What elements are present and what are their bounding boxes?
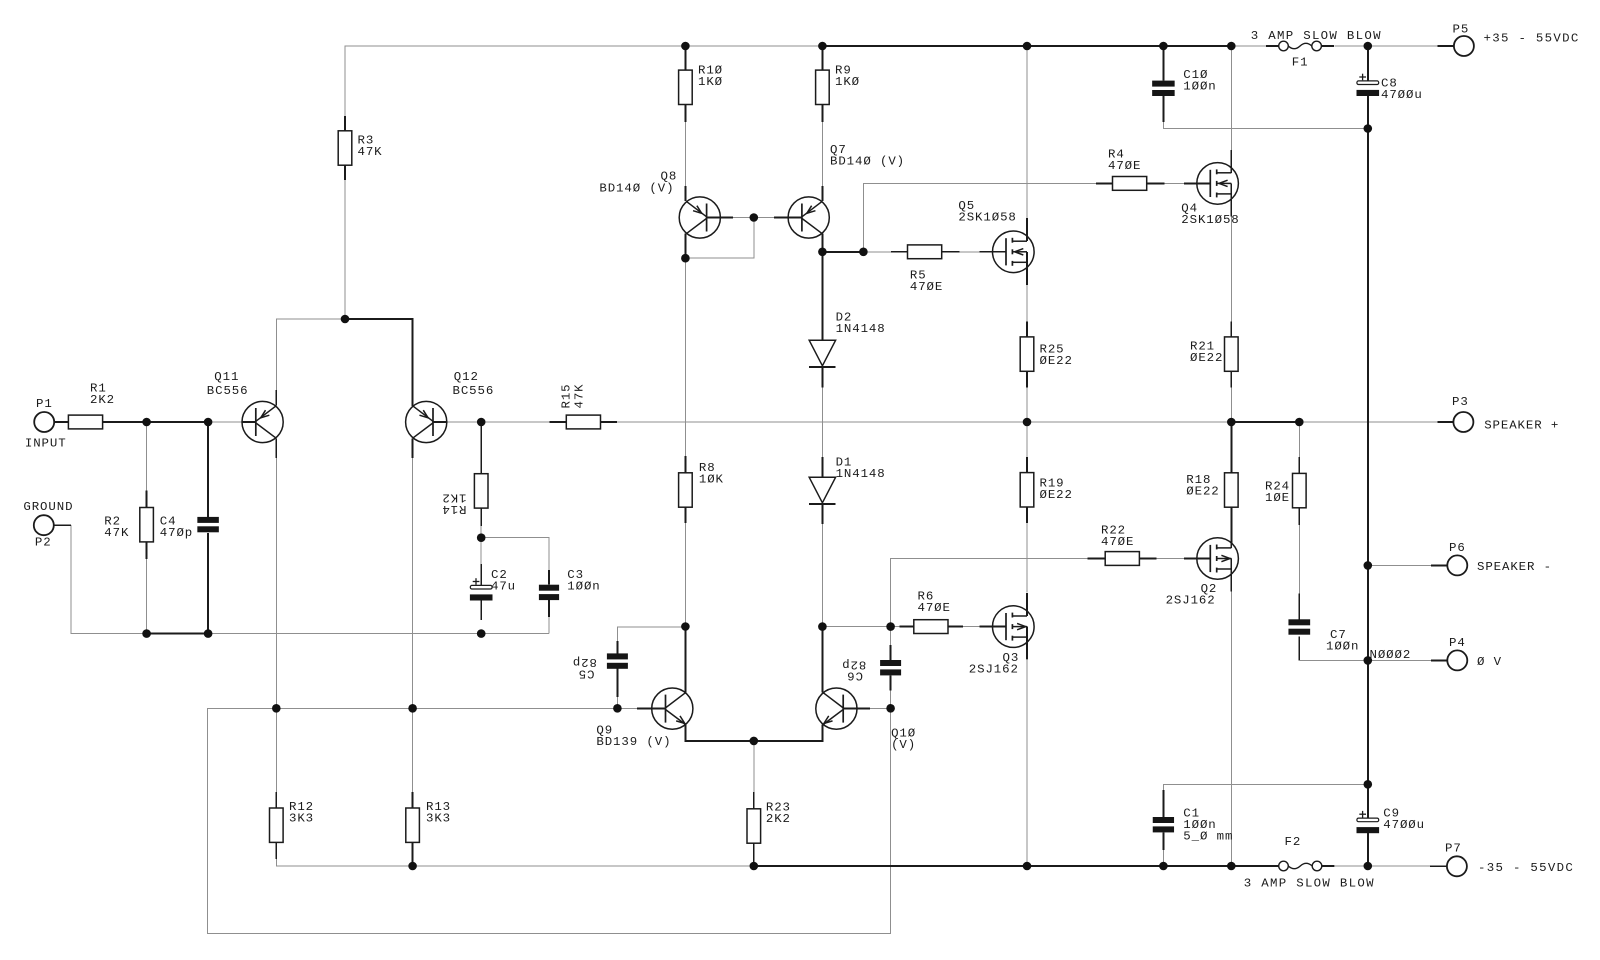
- svg-text:3 AMP SLOW BLOW: 3 AMP SLOW BLOW: [1244, 876, 1375, 890]
- svg-text:Q12: Q12: [454, 370, 479, 384]
- wire: main V bus (thick): [1367, 129, 1369, 785]
- junction: [477, 629, 486, 638]
- junction: [142, 629, 151, 638]
- junction: [681, 42, 690, 51]
- svg-text:47u: 47u: [491, 580, 516, 594]
- svg-text:47ØØu: 47ØØu: [1383, 818, 1425, 832]
- junction: [613, 704, 622, 713]
- wire: Q4 drain to V+ rail: [1230, 46, 1232, 150]
- fuse F1 (3 AMP SLOW BLOW): [1251, 29, 1382, 70]
- svg-text:C6: C6: [846, 669, 863, 683]
- svg-text:P4: P4: [1449, 636, 1466, 650]
- wire: P2 ground run: [71, 525, 147, 633]
- wire: C1 elbow to bus: [1163, 784, 1368, 790]
- junction: [818, 622, 827, 631]
- wire: feedback node to C3: [481, 538, 549, 570]
- capacitor C2 47u: [470, 564, 516, 620]
- svg-text:P2: P2: [35, 536, 52, 550]
- resistor R9 1K0: [816, 46, 860, 122]
- svg-text:P1: P1: [36, 397, 53, 411]
- junction: [818, 42, 827, 51]
- resistor R13 3K3: [406, 792, 451, 866]
- wire: C4 column (thick): [207, 422, 209, 517]
- wire: shared base node to Q7 base: [754, 217, 774, 219]
- wire: Q10 base to C6 node: [870, 707, 891, 709]
- wire: tail node to Q11 emitter column: [276, 319, 345, 390]
- wire: C5 bottom to base node: [616, 697, 618, 709]
- junction: [341, 315, 350, 324]
- wire: Q9/Q10 emitter bridge (thick): [685, 725, 822, 741]
- wire: R21 to output net: [1230, 388, 1232, 422]
- svg-text:GROUND: GROUND: [23, 500, 73, 514]
- wire: Q9 collector (thick): [684, 627, 686, 694]
- resistor R19 0E22: [1020, 457, 1073, 523]
- junction: [886, 704, 895, 713]
- transistor Q9 BD139: [596, 688, 693, 749]
- capacitor C8 4700u: [1357, 74, 1423, 102]
- junction: [1159, 862, 1168, 871]
- junction: [1364, 561, 1373, 570]
- junction: [886, 622, 895, 631]
- wire: C8 top lead (thick): [1367, 46, 1369, 81]
- junction: [408, 862, 417, 871]
- capacitor C6 82p (rotated label): [841, 645, 901, 691]
- svg-text:+35 - 55VDC: +35 - 55VDC: [1484, 32, 1580, 46]
- wire: Q3 source to R19: [1026, 507, 1028, 523]
- wire: R8 bottom to Q9 collector node: [684, 507, 686, 523]
- resistor R24 10E: [1265, 457, 1306, 525]
- svg-text:SPEAKER +: SPEAKER +: [1484, 419, 1559, 433]
- resistor R4 470E: [1096, 148, 1165, 191]
- junction: [681, 254, 690, 263]
- wire: D1 cathode to lower gate node: [821, 524, 823, 627]
- resistor R18 0E22: [1186, 473, 1238, 507]
- svg-text:5_Ø mm: 5_Ø mm: [1183, 830, 1233, 844]
- wire: V+ rail left (R3 top to Q8/R10 column): [345, 46, 822, 180]
- wire: bootstrap column to R8: [684, 258, 686, 456]
- junction: [408, 704, 417, 713]
- resistor R10 1K0: [679, 46, 723, 122]
- junction: [818, 248, 827, 257]
- wire: tail node to Q12 emitter (thick): [345, 319, 413, 406]
- svg-text:P5: P5: [1453, 23, 1470, 37]
- svg-text:1ØØn: 1ØØn: [567, 580, 600, 594]
- svg-text:1KØ: 1KØ: [698, 75, 723, 89]
- junction: [1364, 780, 1373, 789]
- wire: R22 to Q2 gate: [1156, 558, 1184, 560]
- capacitor C1 100n: [1153, 790, 1234, 850]
- svg-text:47ØØu: 47ØØu: [1381, 88, 1423, 102]
- junction: [272, 704, 281, 713]
- junction: [750, 737, 759, 746]
- wire: Q2 source to V- rail: [1230, 591, 1232, 866]
- svg-text:47Øp: 47Øp: [160, 526, 193, 540]
- svg-text:1N4148: 1N4148: [836, 322, 886, 336]
- svg-text:3K3: 3K3: [289, 812, 314, 826]
- svg-text:ØE22: ØE22: [1040, 488, 1073, 502]
- junction: [1295, 418, 1304, 427]
- svg-text:47ØE: 47ØE: [918, 601, 951, 615]
- wire: feedback node to C2: [480, 538, 482, 564]
- svg-text:ØE22: ØE22: [1186, 485, 1219, 499]
- junction: [859, 248, 868, 257]
- svg-text:F2: F2: [1285, 835, 1302, 849]
- wire: R2 column: [146, 422, 148, 490]
- wire: V+ rail to fuse F1: [1231, 45, 1266, 47]
- transistor Q10 BD139: [816, 688, 916, 752]
- svg-text:2SK1Ø58: 2SK1Ø58: [1181, 213, 1239, 227]
- wire: R9 column to Q7 emitter: [821, 122, 823, 186]
- connector P1 (INPUT): [25, 397, 69, 451]
- wire: R13 column: [412, 708, 414, 792]
- wire: V- rail thick: [754, 865, 1266, 867]
- capacitor C10 100n: [1152, 46, 1216, 122]
- svg-text:BC556: BC556: [207, 384, 249, 398]
- junction: [1227, 862, 1236, 871]
- svg-text:P3: P3: [1452, 395, 1469, 409]
- wire: R5 to Q5 gate: [960, 251, 980, 253]
- wire: 0V branch: [1368, 659, 1431, 661]
- junction: [1023, 42, 1032, 51]
- svg-text:Ø V: Ø V: [1477, 655, 1502, 669]
- wire: Q7 collector node (thick): [822, 234, 863, 252]
- wire: input node to Q11 base: [208, 421, 242, 423]
- wire: C9 bus to P7: [1368, 865, 1430, 867]
- junction: [1227, 42, 1236, 51]
- svg-text:2SJ162: 2SJ162: [1166, 594, 1216, 608]
- svg-text:2SK1Ø58: 2SK1Ø58: [958, 211, 1016, 225]
- wire: R25 to output net: [1026, 388, 1028, 422]
- svg-text:3 AMP SLOW BLOW: 3 AMP SLOW BLOW: [1251, 29, 1382, 43]
- svg-text:ØE22: ØE22: [1190, 351, 1223, 365]
- connector P5 (+35 - 55VDC): [1437, 23, 1579, 57]
- wire: R18 to Q2 drain (thick): [1230, 507, 1232, 548]
- resistor R23 2K2: [747, 792, 791, 866]
- wire: driver base net middle: [276, 707, 637, 709]
- fuse F2 (3 AMP SLOW BLOW): [1244, 835, 1375, 890]
- wire: ground rail thick segment: [147, 633, 209, 635]
- wire: C9 leads (thick): [1367, 784, 1369, 818]
- junction: [1159, 42, 1168, 51]
- svg-text:P7: P7: [1445, 842, 1462, 856]
- wire: output net to P3: [1299, 421, 1437, 423]
- resistor R14 1K2 (rotated label): [441, 474, 488, 516]
- svg-text:BD14Ø (V): BD14Ø (V): [830, 155, 905, 169]
- resistor R22 470E: [1088, 524, 1157, 566]
- transistor Q11 BC556: [207, 370, 283, 458]
- wire: R12 column: [275, 708, 277, 792]
- wire: R10 column to Q8 emitter: [684, 122, 686, 186]
- svg-text:BD14Ø (V): BD14Ø (V): [599, 182, 674, 196]
- svg-text:1ØØn: 1ØØn: [1326, 640, 1359, 654]
- wire: D2 anode feed (thick): [821, 252, 823, 340]
- junction: [477, 418, 486, 427]
- junction: [477, 533, 486, 542]
- svg-text:2K2: 2K2: [90, 393, 115, 407]
- diode D1 1N4148: [809, 456, 885, 524]
- wire: Q11 collector column: [275, 458, 277, 708]
- svg-text:47ØE: 47ØE: [1108, 159, 1141, 173]
- junction: [1364, 656, 1373, 665]
- wire: R24 column: [1298, 422, 1300, 457]
- svg-text:SPEAKER -: SPEAKER -: [1477, 560, 1552, 574]
- transistor Q7 BD140: [774, 143, 905, 238]
- wire: C6 column stubs: [890, 627, 892, 645]
- wire: C5 top elbow: [617, 627, 685, 641]
- wire: lower gate node to C6/R6: [822, 626, 899, 628]
- wire: output to R18 (thick): [1230, 422, 1232, 473]
- svg-text:BC556: BC556: [453, 384, 495, 398]
- svg-text:1N4148: 1N4148: [836, 467, 886, 481]
- wire: Q5 drain to V+ rail: [1026, 46, 1028, 218]
- svg-text:ØE22: ØE22: [1040, 354, 1073, 368]
- junction: [204, 629, 213, 638]
- junction: [1023, 862, 1032, 871]
- svg-text:BD139 (V): BD139 (V): [596, 735, 671, 749]
- svg-text:P6: P6: [1449, 541, 1466, 555]
- wire: emitter bridge to R23: [753, 741, 755, 792]
- wire: R14 bottom to feedback node: [480, 508, 482, 526]
- connector P7 (-35 - 55VDC): [1430, 842, 1574, 877]
- svg-text:2K2: 2K2: [766, 812, 791, 826]
- wire: output net R15 to R25/R21 columns: [617, 421, 1231, 423]
- transistor Q8 BD140: [599, 170, 733, 239]
- connector P4 (0 V): [1431, 636, 1502, 670]
- wire: Q5 source to R25: [1026, 285, 1028, 322]
- resistor R5 470E: [891, 245, 960, 294]
- junction: [142, 418, 151, 427]
- wire: Q8 collector-base tie: [685, 218, 753, 259]
- wire: R14 top lead (thick): [480, 422, 482, 474]
- svg-text:1KØ: 1KØ: [835, 75, 860, 89]
- wire: R4 to Q4 gate: [1165, 182, 1184, 184]
- wire: ground rail to C2/C3: [208, 633, 549, 635]
- capacitor C9 4700u: [1357, 807, 1425, 834]
- junction: [1023, 418, 1032, 427]
- svg-text:INPUT: INPUT: [25, 437, 67, 451]
- junction: [204, 418, 213, 427]
- wire: driver base net left: [208, 708, 891, 933]
- mosfet Q2 2SJ162: [1166, 525, 1239, 608]
- resistor R1 2K2: [54, 382, 116, 429]
- mosfet Q4 2SK1058: [1181, 150, 1239, 227]
- wire: V+ rail thick middle: [822, 45, 1231, 47]
- svg-text:47ØE: 47ØE: [910, 280, 943, 294]
- wire: R3 bottom to tail node: [344, 180, 346, 319]
- wire: V- rail left (gray): [276, 859, 754, 866]
- svg-text:R14: R14: [441, 502, 466, 516]
- resistor R15 47K (rotated label): [550, 383, 618, 428]
- svg-text:47K: 47K: [104, 526, 129, 540]
- connector P6 (SPEAKER -): [1431, 541, 1552, 575]
- svg-text:F1: F1: [1292, 56, 1309, 70]
- resistor R21 0E22: [1190, 321, 1238, 387]
- wire: D2-D1 link: [821, 387, 823, 457]
- wire: output net thick segment to R24: [1231, 421, 1299, 423]
- svg-text:1ØE: 1ØE: [1265, 491, 1290, 505]
- diode D2 1N4148: [809, 311, 885, 388]
- resistor R8 10K: [679, 456, 724, 523]
- wire: Q8 collector stub: [684, 234, 686, 259]
- svg-text:NØØØ2: NØØØ2: [1370, 648, 1412, 662]
- wire: C1 bottom to V- rail: [1162, 850, 1164, 866]
- svg-text:C5: C5: [578, 667, 595, 681]
- svg-text:47K: 47K: [573, 383, 587, 408]
- mosfet Q3 2SJ162: [969, 593, 1034, 677]
- wire: R6 to Q3 gate: [963, 626, 979, 628]
- junction: [750, 213, 759, 222]
- junction: [1227, 418, 1236, 427]
- wire: Q8 base to shared base node: [733, 217, 754, 219]
- resistor R12 3K3: [270, 792, 315, 859]
- junction: [1364, 862, 1373, 871]
- capacitor C4 470p: [160, 515, 219, 541]
- resistor R6 470E: [899, 590, 963, 634]
- resistor R3 47K: [338, 116, 382, 180]
- wire: C6 node up to R22: [891, 559, 1088, 627]
- wire: Q12 base to R14 node to R15: [447, 421, 481, 423]
- svg-text:(V): (V): [891, 738, 916, 752]
- capacitor C5 82p (rotated label): [572, 641, 628, 697]
- wire: Q12 collector column: [412, 458, 414, 708]
- wire: gate drive node up to R4: [863, 183, 1095, 251]
- wire: C7 to 0V node: [1298, 636, 1300, 660]
- svg-text:R15: R15: [560, 383, 574, 408]
- svg-text:Q11: Q11: [214, 370, 239, 384]
- capacitor C3 100n: [539, 568, 601, 617]
- junction: [1364, 42, 1373, 51]
- svg-text:47ØE: 47ØE: [1101, 535, 1134, 549]
- wire: fuse F1 to P5: [1335, 45, 1438, 47]
- junction: [1364, 124, 1373, 133]
- svg-text:2SJ162: 2SJ162: [969, 663, 1019, 677]
- junction: [750, 862, 759, 871]
- svg-text:1ØK: 1ØK: [699, 473, 724, 487]
- wire: input net P1-R1-C4 node (thick): [103, 421, 209, 423]
- wire: gate node to R5: [863, 251, 891, 253]
- wire: Q3 drain to V- rail: [1026, 660, 1028, 866]
- mosfet Q5 2SK1058: [958, 199, 1034, 285]
- wire: Q4 source to R21: [1230, 216, 1232, 321]
- wire: R19 top to output: [1026, 422, 1028, 457]
- connector P3 (SPEAKER +): [1437, 395, 1559, 433]
- connector P2 (GROUND): [23, 500, 73, 550]
- wire: fuse F2 to C9 bus: [1335, 865, 1368, 867]
- wire: C10 bottom elbow to C8: [1163, 122, 1367, 129]
- transistor Q12 BC556: [406, 370, 495, 458]
- svg-text:47K: 47K: [358, 145, 383, 159]
- resistor R2 47K: [104, 490, 153, 559]
- svg-text:3K3: 3K3: [426, 812, 451, 826]
- svg-text:1ØØn: 1ØØn: [1183, 80, 1216, 94]
- wire: Q10 collector (thick): [821, 627, 823, 693]
- junction: [681, 622, 690, 631]
- resistor R25 0E22: [1020, 321, 1073, 387]
- wire: speaker minus branch: [1368, 564, 1431, 566]
- capacitor C7 100n: [1288, 593, 1359, 653]
- svg-text:-35 - 55VDC: -35 - 55VDC: [1478, 861, 1574, 875]
